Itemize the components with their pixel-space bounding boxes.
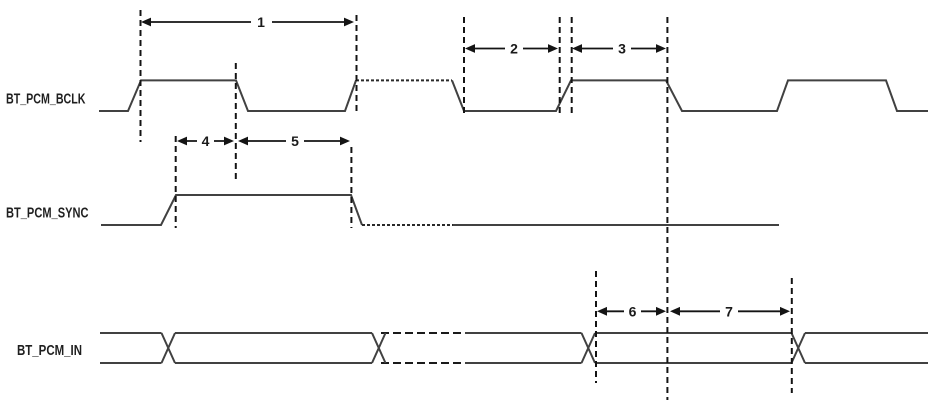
svg-text:1: 1: [257, 14, 265, 30]
dimension arrow 4: [177, 133, 234, 149]
dashed marker line E at BCLK fall after dotted section: [463, 17, 465, 117]
dimension arrow 7: [670, 303, 790, 319]
dashed marker line C lower at SYNC fall: [350, 147, 352, 228]
wire BT_PCM_BCLK waveform solid left section: [99, 80, 356, 111]
dashed marker line B at first BCLK fall: [235, 63, 237, 181]
wire BT_PCM_IN bus dashed top segment: [381, 332, 465, 334]
dimension arrow 5: [238, 133, 350, 149]
wire BT_PCM_SYNC waveform solid right section: [453, 224, 779, 226]
wire BT_PCM_IN bus dashed bottom segment: [381, 362, 465, 364]
wire BT_PCM_BCLK waveform solid right section: [452, 80, 928, 111]
node bus crossing X2: [372, 333, 386, 363]
svg-text:BT_PCM_BCLK: BT_PCM_BCLK: [6, 92, 86, 108]
svg-text:2: 2: [510, 41, 518, 57]
svg-text:3: 3: [618, 41, 626, 57]
dimension arrow 1: [141, 14, 354, 30]
wire BT_PCM_IN bus bottom line segments: [100, 362, 928, 364]
dashed marker line C upper at second BCLK rise: [356, 15, 358, 111]
dashed marker line G at BCLK rise top: [571, 17, 573, 114]
dimension arrow 2: [465, 41, 558, 57]
node bus crossing X1: [162, 333, 176, 363]
dimension arrow 3: [572, 41, 666, 57]
wire BT_PCM_SYNC dotted low section: [362, 224, 453, 226]
dashed marker line D at SYNC rise: [175, 136, 177, 228]
svg-text:6: 6: [629, 303, 637, 319]
svg-text:4: 4: [202, 133, 210, 149]
node bus crossing X4: [792, 333, 806, 363]
dashed marker line I at bus crossing X3: [595, 271, 597, 383]
svg-text:BT_PCM_IN: BT_PCM_IN: [17, 343, 82, 359]
svg-text:5: 5: [291, 133, 299, 149]
node bus crossing X3: [582, 333, 596, 363]
svg-text:7: 7: [725, 303, 733, 319]
dashed marker line F at BCLK rise start: [559, 17, 561, 117]
wire BT_PCM_BCLK dotted high section: [356, 79, 452, 81]
dashed marker line H long line at BCLK fall: [666, 17, 668, 400]
svg-text:BT_PCM_SYNC: BT_PCM_SYNC: [6, 206, 89, 222]
wire BT_PCM_IN bus top line segments: [100, 332, 928, 334]
dashed marker line A at first BCLK rise: [140, 10, 142, 142]
wire BT_PCM_SYNC waveform solid left section: [101, 195, 362, 225]
dimension arrow 6: [597, 303, 666, 319]
dashed marker line J at bus crossing X4: [791, 278, 793, 393]
